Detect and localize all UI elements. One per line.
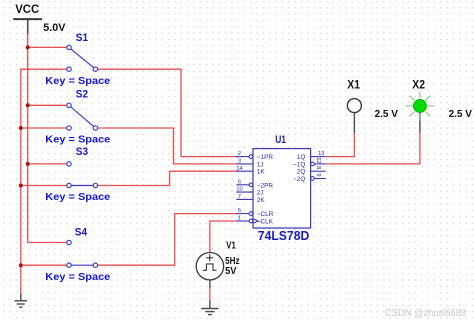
svg-text:~2Q: ~2Q — [293, 176, 305, 183]
svg-text:2: 2 — [238, 151, 241, 157]
svg-text:5V: 5V — [225, 266, 237, 277]
svg-text:9: 9 — [315, 173, 321, 176]
svg-text:2.5 V: 2.5 V — [449, 109, 473, 120]
svg-text:~CLK: ~CLK — [257, 219, 274, 226]
svg-text:14: 14 — [236, 166, 242, 172]
svg-text:1J: 1J — [257, 161, 264, 168]
svg-text:2K: 2K — [257, 197, 266, 204]
svg-text:74LS78D: 74LS78D — [258, 229, 310, 243]
svg-text:CSDN @zhusl6688: CSDN @zhusl6688 — [385, 307, 466, 319]
svg-text:U1: U1 — [275, 134, 286, 146]
svg-text:Key = Space: Key = Space — [45, 191, 110, 203]
svg-text:3: 3 — [238, 159, 241, 165]
svg-text:~CLR: ~CLR — [257, 211, 274, 218]
svg-text:2Q: 2Q — [297, 169, 306, 176]
svg-text:1K: 1K — [257, 169, 266, 176]
svg-text:7: 7 — [238, 194, 241, 200]
svg-text:S4: S4 — [75, 226, 88, 238]
svg-text:5.0V: 5.0V — [43, 22, 66, 34]
svg-text:8: 8 — [315, 166, 321, 169]
svg-text:5: 5 — [238, 208, 241, 214]
svg-text:12: 12 — [315, 157, 321, 163]
svg-text:S1: S1 — [76, 32, 88, 44]
svg-text:6: 6 — [238, 179, 241, 185]
svg-text:~1Q: ~1Q — [293, 161, 305, 168]
svg-text:2.5 V: 2.5 V — [375, 109, 399, 120]
svg-text:S3: S3 — [76, 146, 88, 158]
svg-text:X2: X2 — [412, 80, 425, 92]
svg-text:Key = Space: Key = Space — [45, 75, 110, 87]
svg-text:~1PR: ~1PR — [257, 154, 274, 161]
svg-text:VCC: VCC — [15, 2, 39, 16]
svg-text:2J: 2J — [257, 190, 264, 197]
svg-text:1Q: 1Q — [297, 154, 306, 161]
svg-text:Key = Space: Key = Space — [45, 134, 110, 146]
svg-text:Key = Space: Key = Space — [45, 271, 110, 283]
svg-text:10: 10 — [236, 187, 242, 193]
svg-text:V1: V1 — [226, 241, 236, 252]
svg-text:1: 1 — [238, 216, 241, 222]
svg-text:S2: S2 — [76, 88, 88, 100]
svg-text:~2PR: ~2PR — [257, 182, 274, 189]
svg-text:X1: X1 — [347, 80, 360, 92]
